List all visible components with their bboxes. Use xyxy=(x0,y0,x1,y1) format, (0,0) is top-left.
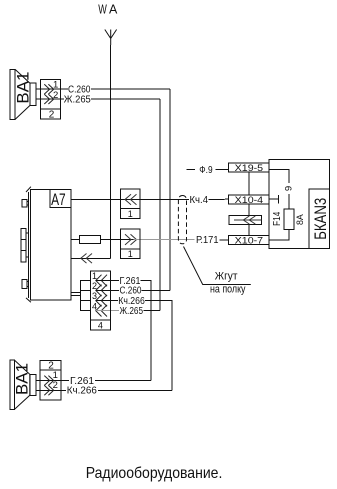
speaker BA1 bottom: magnet frame xyxy=(10,360,14,410)
jumper internal wire xyxy=(234,219,262,221)
svg-text:Кч.266: Кч.266 xyxy=(67,386,97,397)
connector X top-speaker box xyxy=(40,79,60,119)
fuse wire to X10-7 xyxy=(269,230,289,240)
svg-text:X10-4: X10-4 xyxy=(235,195,264,205)
harness stadium dashed xyxy=(178,196,186,244)
svg-text:Радиооборудование.: Радиооборудование. xyxy=(86,465,223,482)
4pin chevron pin2 xyxy=(96,285,107,297)
A7 tab top xyxy=(22,199,27,207)
A7 left edge inner line xyxy=(28,192,30,298)
wire Zh.265 vertical xyxy=(159,99,161,311)
svg-text:BA1: BA1 xyxy=(14,72,32,104)
4pin chevron pin4 xyxy=(96,305,107,317)
svg-text:4: 4 xyxy=(98,321,103,331)
A7 label box xyxy=(50,190,71,208)
connector X bottom-speaker divider xyxy=(40,369,61,371)
wire Kch.266 bottom label wire xyxy=(61,389,66,391)
svg-text:8А: 8А xyxy=(295,214,305,225)
wire Zh.265 pin4 grey stub xyxy=(96,310,119,312)
svg-text:A7: A7 xyxy=(51,190,66,209)
A7 corner slant bottom xyxy=(26,298,31,302)
inline component box xyxy=(80,235,101,243)
connector X bottom chevron pin1 xyxy=(44,376,53,386)
4pin chevron pin1 xyxy=(96,275,107,287)
antenna symbol xyxy=(105,30,117,46)
connector X top-speaker divider xyxy=(40,108,60,110)
connector X19-5 box xyxy=(228,163,269,172)
A7 stub pair xyxy=(71,292,80,295)
connector X 4pin left half xyxy=(80,281,90,311)
wire F.9 stub xyxy=(187,169,195,171)
wire A7 fuse row xyxy=(71,239,134,241)
wire antenna lead vertical xyxy=(110,45,112,258)
connector box << upper divider xyxy=(120,208,140,210)
svg-text:1: 1 xyxy=(92,271,97,281)
svg-text:на полку: на полку xyxy=(210,283,246,295)
A7 tab bottom xyxy=(22,280,27,289)
A7 body xyxy=(30,190,71,301)
speaker BA1 top: driver xyxy=(30,83,36,105)
wire antenna lead horizontal into A7 xyxy=(71,257,111,259)
svg-text:Ф.9: Ф.9 xyxy=(199,165,213,176)
svg-text:F14: F14 xyxy=(271,212,283,226)
wire Kch.266 pin3 xyxy=(96,301,172,391)
wire G.261 bottom label wire xyxy=(61,380,69,382)
wire G.261 pin1 xyxy=(95,281,151,381)
antenna plug chevron << xyxy=(81,254,92,264)
connector << chevron xyxy=(125,194,137,205)
svg-text:X19-5: X19-5 xyxy=(235,163,264,173)
A7 tabs middle xyxy=(21,229,26,262)
connector box >> divider xyxy=(120,248,140,250)
jumper chevron box xyxy=(229,216,262,225)
connector pad speaker2 stubs xyxy=(36,381,61,391)
svg-text:Кч.4: Кч.4 xyxy=(190,195,209,206)
link X10-4 to jumper xyxy=(248,204,250,215)
svg-text:BA1: BA1 xyxy=(14,363,32,395)
wire C.260 vertical xyxy=(169,89,171,290)
connector X top-speaker chevron pin2 xyxy=(44,94,53,104)
link jumper to X10-7 xyxy=(248,225,250,236)
svg-text:Жгут: Жгут xyxy=(215,270,238,282)
svg-text:2: 2 xyxy=(53,90,58,101)
4pin chevron pin3 xyxy=(96,295,107,307)
svg-text:W: W xyxy=(98,3,107,17)
connector box << upper xyxy=(120,189,140,219)
svg-text:1: 1 xyxy=(128,209,133,219)
wire R.171 to X10-7 xyxy=(220,239,229,241)
connector X bottom chevron pin2 xyxy=(44,385,53,395)
svg-text:X10-7: X10-7 xyxy=(235,235,264,245)
svg-text:2: 2 xyxy=(49,109,55,120)
harness leader line xyxy=(184,247,251,285)
connector X 4pin divider xyxy=(90,319,110,321)
speaker BA1 top: cone xyxy=(15,69,30,119)
wire C.260 pin2 stub xyxy=(96,289,170,291)
connector X10-4 box xyxy=(228,195,269,204)
wire R.171 grey xyxy=(134,239,195,241)
speaker BA1 bottom: cone xyxy=(14,360,29,410)
A7 corner slant top xyxy=(26,187,31,192)
wire A7 to connector 1 (Kch.4 line) xyxy=(71,199,140,201)
internal wire from X19-5 to fuse xyxy=(269,169,289,209)
jumper chevron << xyxy=(243,216,255,224)
wire C.260 from speaker1 xyxy=(61,88,170,90)
connector X 4pin main box xyxy=(90,271,110,330)
connector X top-speaker chevron pin1 xyxy=(44,84,53,94)
wire Zh.265 after label xyxy=(144,310,161,312)
svg-text:Ж.265: Ж.265 xyxy=(64,94,91,105)
svg-text:9: 9 xyxy=(284,186,295,191)
BKA label box xyxy=(309,189,330,248)
fuse F14 body xyxy=(284,209,294,230)
speaker BA1 top: magnet frame xyxy=(10,69,15,119)
svg-text:1: 1 xyxy=(128,249,133,259)
link X19-5 to X10-4 xyxy=(248,172,250,195)
svg-text:2: 2 xyxy=(53,380,58,391)
connector box >> lower xyxy=(120,229,140,258)
connector >> chevron xyxy=(125,234,137,245)
svg-text:Ж.265: Ж.265 xyxy=(120,306,144,317)
svg-text:A: A xyxy=(109,3,118,17)
svg-text:Р.171: Р.171 xyxy=(196,235,219,246)
X10-4 internal stub with terminator xyxy=(269,195,278,204)
wire Kch.4 to X10-4 xyxy=(140,198,228,200)
speaker BA1 bottom: driver xyxy=(30,374,36,395)
connector X10-7 box xyxy=(228,235,269,244)
connector pad speaker1 stubs xyxy=(36,89,60,99)
wire F.9 to X19-5 xyxy=(216,169,229,171)
svg-text:БКАN3: БКАN3 xyxy=(311,198,330,240)
wire Zh.265 from speaker1 xyxy=(61,98,161,100)
BKA block body xyxy=(269,159,330,248)
connector X bottom-speaker box xyxy=(40,360,61,400)
